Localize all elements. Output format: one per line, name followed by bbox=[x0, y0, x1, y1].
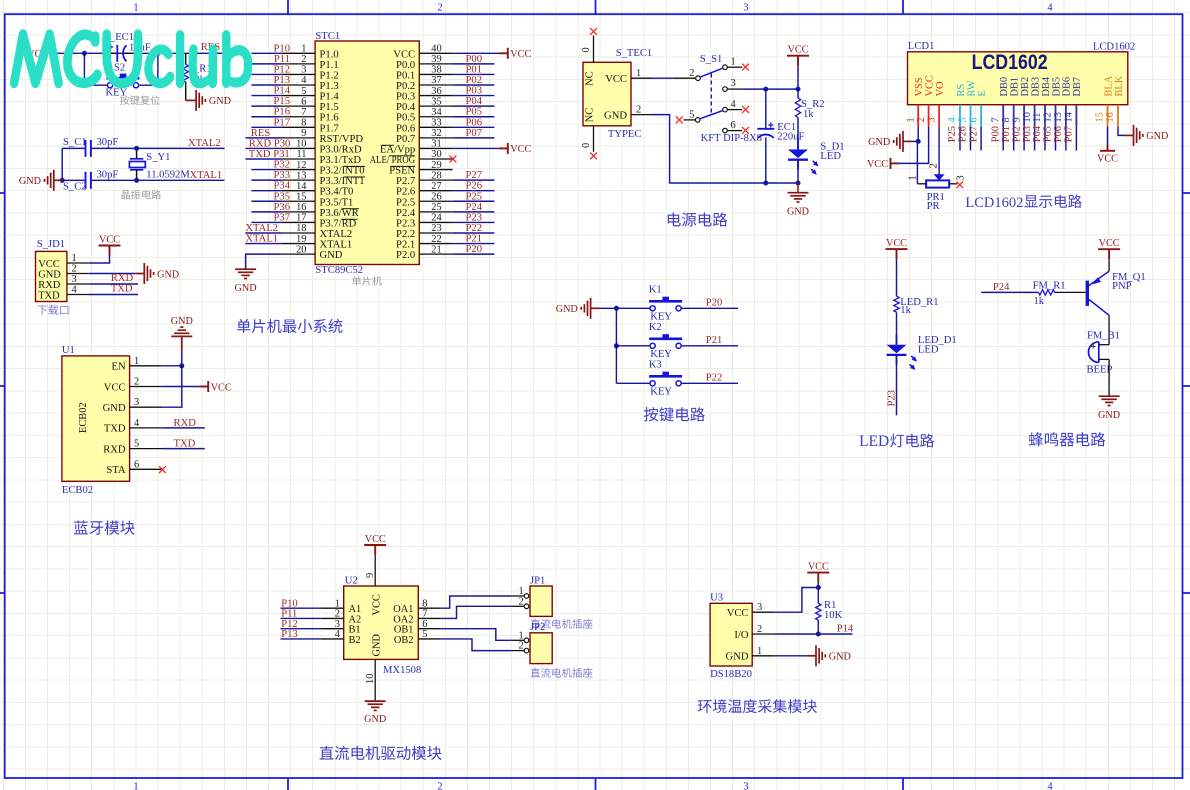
wire P27 bbox=[980, 127, 982, 151]
wire EA pin31 bbox=[453, 147, 499, 149]
svg-text:P14: P14 bbox=[837, 624, 854, 635]
power port VCC (reset) bbox=[50, 48, 52, 59]
svg-text:5: 5 bbox=[422, 629, 427, 640]
svg-text:1: 1 bbox=[907, 175, 918, 180]
svg-text:1: 1 bbox=[757, 646, 762, 657]
svg-text:JP2: JP2 bbox=[530, 622, 545, 633]
wire switch branch left bbox=[84, 53, 107, 85]
pin 39 P0.0 bbox=[419, 63, 452, 65]
junction bbox=[155, 51, 160, 56]
pin 4 TXD bbox=[67, 294, 89, 296]
switch S_S1 pole 2 bbox=[676, 117, 683, 124]
svg-text:3: 3 bbox=[134, 397, 139, 408]
wire P27 bbox=[453, 179, 495, 181]
JP1 pin 2 bbox=[511, 605, 524, 607]
ground (crystal) bbox=[45, 170, 63, 191]
wire TXD pin bbox=[162, 427, 205, 429]
svg-text:RES: RES bbox=[251, 128, 271, 139]
svg-text:P21: P21 bbox=[466, 234, 483, 245]
svg-text:ECB02: ECB02 bbox=[78, 402, 89, 433]
ground (JD1) bbox=[135, 263, 153, 284]
wire TYPEC pin1 to switch bbox=[652, 77, 674, 79]
svg-text:1: 1 bbox=[636, 68, 641, 79]
resistor S_R2 bbox=[795, 98, 800, 118]
svg-text:20: 20 bbox=[296, 244, 306, 255]
svg-text:10K: 10K bbox=[824, 610, 843, 621]
pin 6 STA bbox=[130, 468, 163, 470]
comment text 单片机 bbox=[352, 276, 361, 285]
power port VCC (LED) bbox=[886, 249, 908, 259]
svg-text:VCC: VCC bbox=[605, 74, 627, 85]
svg-text:VCC: VCC bbox=[99, 235, 120, 246]
svg-text:P0.4: P0.4 bbox=[396, 102, 416, 113]
power port VCC (rail) bbox=[787, 56, 809, 66]
wire emitter to VCC bbox=[1108, 259, 1110, 271]
pin name overbars bbox=[342, 145, 416, 219]
svg-text:LCD1: LCD1 bbox=[908, 41, 934, 52]
svg-text:VCC: VCC bbox=[1097, 153, 1118, 164]
svg-text:P0.5: P0.5 bbox=[396, 113, 415, 124]
svg-text:GND: GND bbox=[868, 137, 890, 148]
svg-text:NC: NC bbox=[585, 108, 596, 123]
svg-text:1: 1 bbox=[72, 253, 77, 264]
pin 36 P0.3 bbox=[419, 95, 452, 97]
svg-text:3: 3 bbox=[743, 3, 748, 14]
svg-text:8: 8 bbox=[1001, 117, 1012, 122]
wire P01 bbox=[453, 73, 495, 75]
key button K2 bbox=[616, 345, 650, 347]
svg-text:P21: P21 bbox=[706, 335, 723, 346]
pin 7 DB0 bbox=[1002, 105, 1004, 127]
pin 21 P2.0 bbox=[419, 253, 452, 255]
svg-text:GND: GND bbox=[372, 633, 383, 656]
svg-text:9: 9 bbox=[1011, 117, 1022, 122]
svg-text:S_TEC1: S_TEC1 bbox=[616, 48, 653, 59]
svg-text:P2.4: P2.4 bbox=[396, 208, 416, 219]
svg-text:P2.7: P2.7 bbox=[396, 176, 415, 187]
svg-text:RW: RW bbox=[966, 80, 977, 96]
svg-text:TXD P31: TXD P31 bbox=[249, 149, 290, 160]
svg-text:BLK: BLK bbox=[1114, 75, 1125, 96]
pin 1 VCC bbox=[67, 262, 89, 264]
svg-text:P0.1: P0.1 bbox=[396, 70, 415, 81]
wire RXD pin bbox=[162, 448, 205, 450]
pin 3 P1.2 bbox=[282, 73, 315, 75]
svg-text:S_C2: S_C2 bbox=[63, 182, 87, 193]
pin 2 VCC bbox=[928, 105, 930, 127]
pin 8 P1.7 bbox=[282, 126, 315, 128]
wire P06 bbox=[453, 126, 495, 128]
wire EN/GND tie bbox=[162, 350, 182, 407]
svg-text:10: 10 bbox=[365, 674, 376, 684]
power port VCC (backlight) bbox=[1100, 145, 1115, 151]
junction bbox=[816, 632, 821, 637]
svg-text:PNP: PNP bbox=[1112, 281, 1132, 292]
svg-text:4: 4 bbox=[301, 75, 307, 86]
key button K1 bbox=[616, 307, 650, 309]
capacitor S_C2 bbox=[86, 172, 91, 189]
svg-text:U2: U2 bbox=[345, 575, 358, 586]
svg-text:P1.1: P1.1 bbox=[320, 60, 339, 71]
svg-text:P17: P17 bbox=[274, 117, 291, 128]
svg-text:10: 10 bbox=[296, 139, 306, 150]
svg-text:P2.1: P2.1 bbox=[396, 240, 415, 251]
pin 1 EN bbox=[130, 365, 163, 367]
wire bbox=[797, 161, 799, 184]
wire buzzer to GND bbox=[1108, 359, 1110, 396]
pin 22 P2.1 bbox=[419, 243, 452, 245]
pin 33 P0.6 bbox=[419, 126, 452, 128]
svg-text:4: 4 bbox=[72, 285, 78, 296]
wire pin3 bbox=[774, 588, 818, 613]
svg-text:XTAL2: XTAL2 bbox=[320, 229, 353, 240]
svg-text:VCC: VCC bbox=[808, 562, 829, 573]
pin 3 GND bbox=[130, 406, 163, 408]
svg-text:P12: P12 bbox=[274, 64, 291, 75]
wire P20 bbox=[453, 253, 495, 255]
motor driver U2 box bbox=[344, 586, 419, 659]
JP1 pin 1 bbox=[511, 595, 524, 597]
wire P16 bbox=[251, 116, 281, 118]
comment text 按键复位 bbox=[120, 95, 129, 104]
junction bbox=[816, 585, 821, 590]
pin 1 A1 bbox=[322, 607, 344, 609]
wire P00 bbox=[1002, 127, 1004, 151]
svg-text:VCC: VCC bbox=[372, 594, 383, 615]
svg-text:S_S1: S_S1 bbox=[700, 54, 722, 65]
ground (backlight) bbox=[1125, 125, 1143, 146]
wire P14 bbox=[251, 95, 281, 97]
svg-text:9: 9 bbox=[365, 573, 376, 578]
wire XTAL2 pin18 bbox=[245, 232, 281, 234]
svg-text:14: 14 bbox=[296, 181, 307, 192]
svg-text:LCD1602: LCD1602 bbox=[1093, 42, 1135, 53]
svg-text:U3: U3 bbox=[710, 593, 723, 604]
wire P05 bbox=[1055, 127, 1057, 151]
pot pin1 wire bbox=[916, 141, 918, 183]
MCUclub logo bbox=[11, 31, 62, 87]
svg-text:P25: P25 bbox=[466, 191, 483, 202]
svg-text:P06: P06 bbox=[466, 117, 483, 128]
svg-text:VCC: VCC bbox=[867, 159, 888, 170]
svg-text:NC: NC bbox=[585, 71, 596, 86]
svg-text:37: 37 bbox=[431, 75, 441, 86]
resistor S_R1 bbox=[185, 53, 187, 64]
svg-text:38: 38 bbox=[431, 65, 441, 76]
pin 4 B2 bbox=[322, 638, 344, 640]
svg-text:P1.5: P1.5 bbox=[320, 102, 339, 113]
svg-text:11: 11 bbox=[296, 149, 306, 160]
svg-text:11: 11 bbox=[1032, 112, 1043, 122]
wire P24 bbox=[453, 211, 495, 213]
no connect pin30 bbox=[450, 156, 457, 163]
svg-text:VCC: VCC bbox=[924, 75, 935, 96]
wire VSS to GND bbox=[917, 127, 919, 142]
pin 5 OB2 bbox=[418, 638, 440, 640]
junction bbox=[82, 51, 87, 56]
svg-text:GND: GND bbox=[556, 304, 578, 315]
svg-text:1k: 1k bbox=[803, 109, 814, 120]
wire XTAL2 row bbox=[62, 147, 85, 149]
svg-text:DS18B20: DS18B20 bbox=[710, 669, 752, 680]
pin 28 P2.7 bbox=[419, 179, 452, 181]
title 环境温度采集模块 bbox=[698, 700, 712, 713]
pin 25 P2.4 bbox=[419, 211, 452, 213]
pin 12 P3.2/INT0 bbox=[282, 169, 315, 171]
svg-text:S2: S2 bbox=[114, 63, 125, 74]
wire P30 bbox=[246, 147, 282, 149]
svg-text:2: 2 bbox=[437, 3, 442, 14]
svg-text:ALE/ PROG: ALE/ PROG bbox=[370, 155, 416, 166]
svg-text:32: 32 bbox=[431, 128, 441, 139]
svg-text:GND: GND bbox=[364, 714, 386, 725]
svg-text:P13: P13 bbox=[274, 75, 291, 86]
svg-text:P26: P26 bbox=[958, 126, 969, 142]
pin 4 P1.3 bbox=[282, 84, 315, 86]
svg-text:KEY: KEY bbox=[650, 387, 672, 398]
pin 3 RXD bbox=[67, 283, 89, 285]
pin 3 B1 bbox=[322, 628, 344, 630]
svg-text:P1.0: P1.0 bbox=[320, 49, 339, 60]
svg-text:TXD: TXD bbox=[174, 439, 196, 450]
svg-text:5: 5 bbox=[689, 110, 694, 121]
svg-text:28: 28 bbox=[431, 170, 441, 181]
svg-text:P02: P02 bbox=[466, 75, 483, 86]
wire VCC rail bbox=[797, 66, 799, 98]
svg-text:P3.3/INT1: P3.3/INT1 bbox=[320, 176, 365, 187]
svg-text:2: 2 bbox=[928, 163, 939, 168]
wire P15 bbox=[251, 105, 281, 107]
buzzer FM_B1 bbox=[1089, 342, 1099, 363]
svg-text:DB7: DB7 bbox=[1072, 77, 1083, 97]
svg-text:P27: P27 bbox=[466, 170, 483, 181]
svg-text:TXD: TXD bbox=[38, 290, 60, 301]
power port VCC pin40 bbox=[499, 48, 508, 59]
title 蓝牙模块 bbox=[74, 520, 88, 534]
wire P37 bbox=[251, 221, 281, 223]
svg-text:P04: P04 bbox=[466, 96, 483, 107]
svg-text:P3.6/WR: P3.6/WR bbox=[320, 208, 360, 219]
svg-text:KEY: KEY bbox=[650, 349, 672, 360]
svg-text:27: 27 bbox=[431, 181, 441, 192]
pin 9 VCC top bbox=[374, 555, 376, 586]
svg-text:1: 1 bbox=[133, 3, 138, 14]
svg-text:STA: STA bbox=[106, 465, 126, 476]
pin 14 P3.4/T0 bbox=[282, 190, 315, 192]
svg-text:P04: P04 bbox=[1032, 125, 1043, 142]
pin 5 RXD bbox=[130, 448, 163, 450]
wire P02 bbox=[453, 84, 495, 86]
pin 10 GND bottom bbox=[374, 659, 376, 701]
svg-text:13: 13 bbox=[296, 170, 306, 181]
svg-text:6: 6 bbox=[968, 117, 979, 122]
svg-text:RST/VPD: RST/VPD bbox=[320, 134, 364, 145]
wire GND pin bbox=[774, 655, 807, 657]
pin 2 GND bbox=[631, 114, 652, 116]
svg-text:XTAL1: XTAL1 bbox=[245, 234, 278, 245]
MCU U STC1 box bbox=[315, 41, 419, 265]
svg-text:GND: GND bbox=[787, 207, 809, 218]
svg-text:7: 7 bbox=[990, 117, 1001, 122]
crystal S_Y1 bbox=[136, 148, 138, 158]
svg-text:36: 36 bbox=[431, 86, 441, 97]
wire VCC to R1 bbox=[817, 583, 819, 604]
pin 37 P0.2 bbox=[419, 84, 452, 86]
switch S_S1 throw pin3 bbox=[723, 87, 728, 92]
wire P06 bbox=[1065, 127, 1067, 151]
svg-text:P2.6: P2.6 bbox=[396, 187, 415, 198]
pin 4 TXD bbox=[130, 427, 163, 429]
pin 34 P0.5 bbox=[419, 116, 452, 118]
pin 30 ALE/ PROG bbox=[419, 158, 452, 160]
svg-text:11.0592M: 11.0592M bbox=[146, 169, 190, 180]
capacitor EC1 bbox=[765, 89, 767, 128]
wire bbox=[797, 118, 799, 150]
pin 0 bottom bbox=[593, 126, 595, 152]
wire P11 bbox=[281, 617, 322, 619]
svg-text:VCC: VCC bbox=[365, 534, 386, 545]
wire P17 bbox=[251, 126, 281, 128]
svg-text:13: 13 bbox=[1053, 112, 1064, 122]
svg-text:RS: RS bbox=[956, 84, 967, 97]
switch S_S1 throw pin6 bbox=[723, 128, 728, 133]
svg-text:4: 4 bbox=[134, 418, 140, 429]
wire VCC pin2 bbox=[899, 127, 929, 164]
svg-text:KEY: KEY bbox=[650, 312, 672, 323]
wire P24 bbox=[981, 291, 1038, 293]
wire P05 bbox=[453, 116, 495, 118]
svg-text:XTAL2: XTAL2 bbox=[245, 223, 278, 234]
svg-text:P00: P00 bbox=[990, 126, 1001, 142]
wire P26 bbox=[970, 127, 972, 151]
pin 13 DB6 bbox=[1065, 105, 1067, 127]
power port VCC (U3) bbox=[807, 573, 829, 583]
pin 1 VSS bbox=[917, 105, 919, 127]
junction bbox=[614, 306, 619, 311]
wire P32 bbox=[251, 169, 281, 171]
svg-text:21: 21 bbox=[431, 244, 441, 255]
svg-text:6: 6 bbox=[134, 459, 139, 470]
pin 23 P2.2 bbox=[419, 232, 452, 234]
svg-text:P36: P36 bbox=[274, 202, 291, 213]
wire P03 bbox=[453, 95, 495, 97]
title 直流电机驱动模块 bbox=[320, 746, 334, 760]
svg-text:6: 6 bbox=[301, 96, 306, 107]
wire P35 bbox=[251, 200, 281, 202]
no connect STA bbox=[159, 466, 166, 473]
pin 3 VCC bbox=[752, 611, 774, 613]
pin 12 DB5 bbox=[1055, 105, 1057, 127]
svg-text:FM_R1: FM_R1 bbox=[1033, 281, 1066, 292]
wire P25 bbox=[453, 200, 495, 202]
svg-text:FM_B1: FM_B1 bbox=[1087, 331, 1120, 342]
wire P33 bbox=[251, 179, 281, 181]
svg-text:26: 26 bbox=[431, 191, 441, 202]
title 单片机最小系统 bbox=[237, 319, 251, 333]
wire P01 bbox=[1013, 127, 1015, 151]
connector S_JD1 box bbox=[36, 251, 67, 301]
svg-text:EN: EN bbox=[111, 362, 125, 373]
svg-text:3: 3 bbox=[72, 274, 77, 285]
svg-text:4: 4 bbox=[731, 99, 737, 110]
svg-text:30pF: 30pF bbox=[97, 170, 119, 181]
pin 27 P2.6 bbox=[419, 190, 452, 192]
wire bbox=[896, 259, 898, 296]
svg-text:22: 22 bbox=[431, 234, 441, 245]
svg-text:P32: P32 bbox=[274, 160, 291, 171]
key button K3 bbox=[616, 382, 650, 384]
pin 7 OA2 bbox=[418, 617, 440, 619]
ground (power rail) bbox=[797, 183, 799, 193]
svg-text:40: 40 bbox=[431, 44, 441, 55]
svg-text:KFT DIP-8X8: KFT DIP-8X8 bbox=[701, 133, 762, 144]
svg-text:RXD: RXD bbox=[38, 280, 60, 291]
pin 17 P3.7/RD bbox=[282, 221, 315, 223]
svg-text:GND: GND bbox=[103, 403, 126, 414]
svg-text:2: 2 bbox=[636, 105, 641, 116]
pin 6 OB1 bbox=[418, 628, 440, 630]
svg-text:P13: P13 bbox=[281, 629, 298, 640]
bluetooth U1 box bbox=[62, 356, 130, 481]
svg-text:VCC: VCC bbox=[393, 49, 415, 60]
svg-text:2: 2 bbox=[689, 68, 694, 79]
ground (MCU) bbox=[235, 269, 256, 278]
svg-text:LED: LED bbox=[859, 433, 889, 450]
wire P04 bbox=[1044, 127, 1046, 151]
svg-text:P11: P11 bbox=[274, 54, 290, 65]
svg-text:TXD: TXD bbox=[104, 424, 126, 435]
wire VCC pin40 bbox=[453, 52, 499, 54]
svg-text:P22: P22 bbox=[706, 373, 723, 384]
svg-text:OB2: OB2 bbox=[394, 635, 414, 646]
svg-text:P06: P06 bbox=[1053, 126, 1064, 142]
svg-text:5: 5 bbox=[134, 439, 139, 450]
svg-text:P14: P14 bbox=[274, 86, 291, 97]
svg-text:2: 2 bbox=[72, 264, 77, 275]
wire collector to buzzer bbox=[1108, 315, 1110, 344]
pin 1 P1.0 bbox=[282, 52, 315, 54]
wire P23 bbox=[896, 356, 898, 416]
wire VCC bbox=[162, 386, 199, 388]
comment text 直流电机插座 bbox=[530, 668, 540, 677]
svg-text:29: 29 bbox=[431, 160, 441, 171]
pin 4 RS bbox=[959, 105, 961, 127]
power port VCC (U2) bbox=[364, 545, 386, 555]
svg-text:DB2: DB2 bbox=[1020, 77, 1031, 97]
power port VCC pin31 bbox=[499, 143, 508, 154]
resistor LED_R1 bbox=[894, 296, 899, 312]
svg-text:12: 12 bbox=[296, 160, 306, 171]
svg-text:P3.2/INT0: P3.2/INT0 bbox=[320, 166, 365, 177]
power port VCC (LCD) bbox=[891, 158, 900, 169]
svg-text:P0.2: P0.2 bbox=[396, 81, 415, 92]
svg-text:3: 3 bbox=[743, 782, 748, 790]
svg-text:33: 33 bbox=[431, 117, 441, 128]
svg-text:P01: P01 bbox=[466, 64, 483, 75]
wire P21 bbox=[453, 243, 495, 245]
connector JP1 box bbox=[530, 586, 552, 616]
svg-text:34: 34 bbox=[431, 107, 442, 118]
wire left leg bbox=[61, 148, 63, 180]
svg-text:17: 17 bbox=[296, 213, 306, 224]
ground (buzzer) bbox=[1099, 396, 1120, 405]
wire P10 bbox=[251, 52, 281, 54]
LED LED_D1 bbox=[896, 334, 898, 345]
svg-text:S_JD1: S_JD1 bbox=[37, 239, 65, 250]
svg-text:2: 2 bbox=[519, 641, 524, 652]
svg-text:39: 39 bbox=[431, 54, 441, 65]
pin 2 GND bbox=[67, 273, 89, 275]
